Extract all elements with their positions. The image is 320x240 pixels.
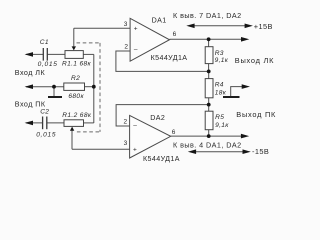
op-amp U1 DA1 (130, 18, 169, 61)
wire PK output elbow (231, 87, 243, 97)
resistor R1.2 wiper arrow (70, 127, 74, 131)
svg-text:0,015: 0,015 (36, 131, 56, 138)
svg-text:К выв. 4 DA1, DA2: К выв. 4 DA1, DA2 (173, 141, 242, 150)
svg-text:–: – (133, 123, 137, 130)
wire +15V line (193, 25, 246, 27)
arrow input common (25, 84, 33, 89)
svg-text:+15В: +15В (254, 22, 273, 31)
svg-text:6: 6 (173, 31, 177, 38)
svg-text:18к: 18к (215, 90, 227, 97)
svg-text:Выход ЛК: Выход ЛК (235, 56, 274, 65)
ground bar common input (48, 96, 62, 98)
wire C2 to R1.2 (47, 122, 64, 124)
resistor R1.1 (65, 51, 83, 59)
wire DA1 output (170, 38, 243, 40)
wire input common line (26, 86, 64, 88)
wire R3 top lead (208, 39, 210, 46)
svg-text:DA2: DA2 (150, 114, 165, 122)
svg-text:R1.2 68к: R1.2 68к (62, 112, 92, 119)
arrow +15V right (245, 24, 253, 29)
junction DA2 output / R5 (207, 134, 211, 138)
wire DA2 pin3 (72, 148, 130, 150)
svg-text:R1.1 68к: R1.1 68к (62, 61, 92, 68)
wire input PK (26, 122, 43, 124)
wire ground tap vertical (53, 87, 55, 97)
arrow -15V left (188, 149, 196, 154)
wire -15V line (194, 151, 244, 153)
svg-text:Выход ПК: Выход ПК (236, 110, 276, 119)
junction R3/R4 feedback DA1 (207, 70, 211, 74)
arrow input LK (25, 52, 33, 57)
wire R2 right lead (85, 86, 94, 88)
svg-text:2: 2 (124, 44, 128, 51)
dashed gang link R1.1 wiper horizontal (77, 42, 101, 44)
svg-text:9,1к: 9,1к (215, 57, 229, 64)
wire R5 top lead (208, 105, 210, 112)
resistor R3 (205, 47, 213, 64)
wire DA2 pin2 (116, 105, 209, 126)
resistor R1.2 (64, 120, 84, 127)
arrow -15V right (243, 149, 251, 154)
wire input LK (26, 53, 43, 55)
svg-text:Вход ПК: Вход ПК (15, 99, 46, 108)
svg-text:3: 3 (124, 140, 128, 147)
wire C1 to R1.1 (47, 53, 65, 55)
contact bar PK output (223, 96, 240, 98)
svg-text:-15В: -15В (252, 147, 269, 156)
svg-text:К выв. 7 DA1, DA2: К выв. 7 DA1, DA2 (173, 11, 242, 20)
arrow output PK elbow (242, 84, 250, 89)
resistor R4 (205, 79, 213, 98)
arrow input PK (25, 121, 33, 126)
wire R3 bottom lead (208, 64, 210, 72)
svg-text:+: + (133, 147, 137, 154)
svg-text:Вход ЛК: Вход ЛК (15, 68, 46, 77)
arrow +15V left (186, 24, 194, 29)
svg-text:C1: C1 (40, 39, 49, 46)
svg-text:R5: R5 (215, 114, 224, 121)
resistor R1.1 wiper arrow (72, 46, 76, 50)
svg-text:+: + (134, 25, 138, 32)
svg-text:К544УД1А: К544УД1А (143, 155, 180, 163)
wire R1.2 wiper vertical (71, 131, 73, 150)
arrow output LK (241, 37, 249, 42)
svg-text:R4: R4 (215, 81, 224, 88)
svg-text:0,015: 0,015 (38, 61, 58, 68)
wire DA2 output (171, 135, 242, 137)
wire R1.1 right lead (83, 53, 94, 55)
svg-text:C2: C2 (40, 109, 49, 116)
capacitor C2 (43, 117, 47, 130)
wire DA1 pin2 (116, 51, 209, 71)
wire R4 top lead (208, 71, 210, 78)
svg-text:DA1: DA1 (152, 17, 167, 25)
resistor R5 (205, 111, 213, 130)
svg-text:3: 3 (124, 21, 128, 28)
svg-text:6: 6 (172, 129, 176, 136)
wire R4 bottom lead (208, 98, 210, 105)
resistor R2 (64, 83, 85, 90)
svg-text:–: – (134, 47, 138, 54)
junction common input ground tap (52, 85, 56, 89)
junction R4/R5 feedback DA2 (207, 103, 211, 107)
wire R5 bottom lead (208, 130, 210, 136)
svg-text:R2: R2 (71, 75, 80, 82)
wire DA1 pin3 (74, 27, 130, 29)
junction R2 right / bus (92, 85, 96, 89)
svg-text:К544УД1А: К544УД1А (151, 54, 188, 62)
wire R1.2 right lead (84, 122, 94, 124)
dashed gang link vertical (99, 43, 101, 132)
dashed gang link R1.2 wiper horizontal (77, 131, 100, 133)
op-amp U2 DA2 (130, 115, 171, 158)
svg-text:2: 2 (124, 118, 128, 125)
svg-text:9,1к: 9,1к (215, 122, 229, 129)
junction DA1 output / R3 (207, 37, 211, 41)
wire R1.1 wiper vertical (73, 28, 75, 47)
arrow output DA2 line (241, 134, 249, 139)
svg-text:680к: 680к (68, 93, 84, 100)
wire right bus vertical (93, 54, 95, 123)
capacitor C1 (43, 48, 47, 61)
